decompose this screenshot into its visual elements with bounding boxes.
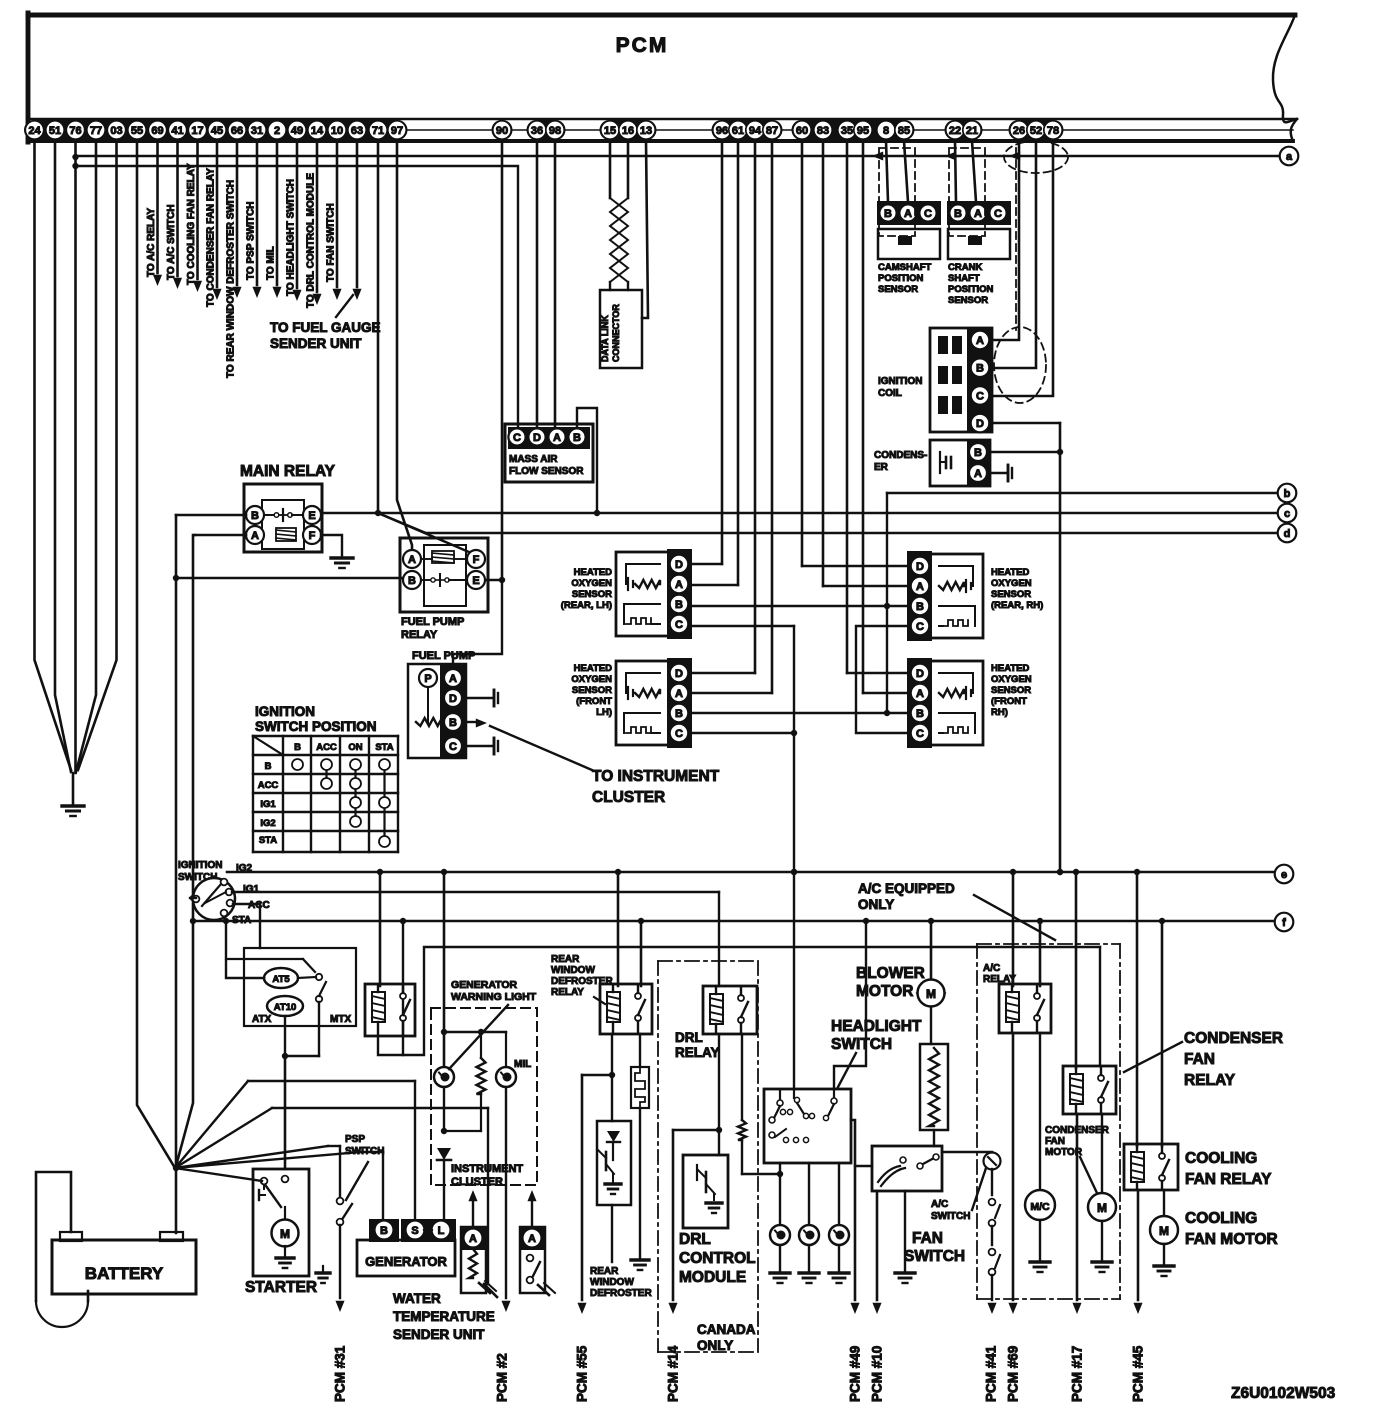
svg-text:DATA LINK: DATA LINK [600, 315, 610, 362]
svg-text:PCM #10: PCM #10 [870, 1346, 885, 1402]
svg-text:HEADLIGHT: HEADLIGHT [831, 1018, 922, 1035]
svg-text:PSP: PSP [345, 1134, 365, 1145]
svg-text:A/C: A/C [931, 1199, 948, 1210]
svg-text:77: 77 [90, 125, 102, 137]
svg-text:ONLY: ONLY [697, 1338, 733, 1353]
svg-text:POSITION: POSITION [878, 273, 924, 284]
svg-text:CONDENSER: CONDENSER [1184, 1030, 1283, 1047]
svg-text:IGNITION: IGNITION [178, 860, 222, 871]
svg-text:STARTER: STARTER [245, 1279, 317, 1296]
svg-text:FAN: FAN [912, 1230, 943, 1247]
svg-text:(FRONT: (FRONT [991, 696, 1027, 707]
svg-text:B: B [976, 363, 984, 375]
svg-text:CONNECTOR: CONNECTOR [611, 304, 621, 362]
svg-text:FAN MOTOR: FAN MOTOR [1185, 1231, 1278, 1248]
svg-text:A: A [528, 1233, 536, 1245]
svg-text:TO A/C SWITCH: TO A/C SWITCH [166, 204, 177, 280]
svg-text:IG2: IG2 [260, 818, 275, 829]
svg-text:ATX: ATX [252, 1014, 272, 1025]
svg-text:RH): RH) [991, 707, 1008, 718]
svg-text:B: B [675, 708, 683, 720]
svg-text:A: A [904, 208, 912, 220]
svg-text:Z6U0102W503: Z6U0102W503 [1231, 1385, 1336, 1402]
svg-text:HEATED: HEATED [574, 663, 612, 674]
svg-text:GENERATOR: GENERATOR [451, 979, 518, 991]
svg-text:16: 16 [622, 125, 634, 137]
svg-text:90: 90 [496, 125, 508, 137]
svg-text:b: b [1284, 488, 1291, 500]
svg-text:(REAR, RH): (REAR, RH) [991, 600, 1043, 611]
svg-text:M: M [280, 1227, 290, 1241]
svg-text:B: B [916, 708, 924, 720]
svg-text:SENSOR: SENSOR [948, 295, 988, 306]
svg-text:MASS AIR: MASS AIR [509, 454, 558, 465]
svg-text:SHAFT: SHAFT [948, 273, 980, 284]
svg-text:A: A [553, 432, 561, 444]
svg-text:ON: ON [348, 742, 362, 753]
svg-text:98: 98 [549, 125, 561, 137]
svg-text:IGNITION: IGNITION [255, 704, 315, 719]
svg-text:REAR: REAR [551, 954, 580, 965]
svg-text:TO A/C RELAY: TO A/C RELAY [146, 208, 157, 277]
svg-text:SENSOR: SENSOR [991, 589, 1031, 600]
svg-text:S: S [411, 1225, 418, 1237]
svg-text:L: L [438, 1225, 445, 1237]
svg-text:PCM #49: PCM #49 [848, 1346, 863, 1402]
svg-text:c: c [1284, 508, 1290, 520]
svg-text:69: 69 [151, 125, 163, 137]
svg-text:FUEL PUMP: FUEL PUMP [401, 616, 464, 628]
svg-text:TO FUEL GAUGE: TO FUEL GAUGE [270, 320, 381, 335]
svg-text:26: 26 [1013, 125, 1025, 137]
svg-text:B: B [974, 447, 982, 459]
svg-text:M: M [1159, 1224, 1169, 1238]
svg-text:WATER: WATER [393, 1291, 441, 1306]
svg-text:52: 52 [1030, 125, 1042, 137]
svg-text:35: 35 [841, 125, 853, 137]
svg-text:D: D [976, 418, 984, 430]
svg-text:63: 63 [351, 125, 363, 137]
svg-text:COOLING: COOLING [1185, 1210, 1257, 1227]
svg-text:D: D [533, 432, 541, 444]
svg-text:95: 95 [857, 125, 869, 137]
svg-text:d: d [1284, 528, 1291, 540]
svg-text:SENDER UNIT: SENDER UNIT [270, 336, 362, 351]
svg-text:SWITCH: SWITCH [345, 1146, 384, 1157]
svg-text:TO COOLING FAN RELAY: TO COOLING FAN RELAY [186, 163, 197, 285]
svg-text:D: D [449, 693, 457, 705]
svg-text:F: F [473, 554, 480, 566]
svg-text:B: B [916, 601, 924, 613]
svg-text:14: 14 [311, 125, 324, 137]
svg-text:94: 94 [749, 125, 762, 137]
svg-text:SWITCH: SWITCH [904, 1248, 965, 1265]
svg-text:STA: STA [375, 742, 393, 753]
svg-text:PCM #69: PCM #69 [1006, 1346, 1021, 1402]
svg-text:SENSOR: SENSOR [572, 685, 612, 696]
svg-text:(FRONT: (FRONT [576, 696, 612, 707]
svg-text:97: 97 [391, 125, 403, 137]
svg-text:SWITCH: SWITCH [931, 1211, 970, 1222]
svg-text:A: A [974, 468, 982, 480]
svg-text:8: 8 [883, 125, 889, 137]
svg-text:A: A [916, 688, 924, 700]
svg-text:ONLY: ONLY [858, 897, 894, 912]
svg-text:B: B [265, 761, 272, 772]
svg-text:22: 22 [949, 125, 961, 137]
svg-text:LH): LH) [596, 707, 612, 718]
svg-text:CANADA: CANADA [697, 1322, 756, 1337]
svg-text:C: C [924, 208, 932, 220]
svg-text:41: 41 [171, 125, 183, 137]
svg-text:49: 49 [291, 125, 303, 137]
svg-text:HEATED: HEATED [991, 663, 1029, 674]
svg-text:POSITION: POSITION [948, 284, 994, 295]
svg-text:SWITCH: SWITCH [831, 1036, 892, 1053]
svg-text:FAN: FAN [1184, 1051, 1215, 1068]
svg-text:E: E [472, 575, 479, 587]
svg-text:87: 87 [766, 125, 778, 137]
svg-text:21: 21 [966, 125, 978, 137]
svg-text:ACC: ACC [316, 742, 337, 753]
svg-text:CONTROL: CONTROL [679, 1250, 756, 1267]
svg-text:F: F [309, 530, 316, 542]
svg-text:MTX: MTX [330, 1014, 351, 1025]
svg-text:BLOWER: BLOWER [856, 965, 925, 982]
svg-text:CRANK: CRANK [948, 262, 982, 273]
svg-text:96: 96 [716, 125, 728, 137]
svg-text:OXYGEN: OXYGEN [991, 674, 1032, 685]
svg-text:HEATED: HEATED [991, 567, 1029, 578]
svg-text:TO REAR WINDOW DEFROSTER SWITC: TO REAR WINDOW DEFROSTER SWITCH [226, 180, 237, 378]
svg-text:A: A [675, 688, 683, 700]
svg-text:45: 45 [211, 125, 223, 137]
svg-text:SENSOR: SENSOR [572, 589, 612, 600]
svg-text:SENDER UNIT: SENDER UNIT [393, 1327, 485, 1342]
svg-text:D: D [675, 668, 683, 680]
svg-text:RELAY: RELAY [1184, 1072, 1236, 1089]
svg-text:STA: STA [259, 835, 277, 846]
svg-text:66: 66 [231, 125, 243, 137]
svg-text:TO MIL: TO MIL [266, 246, 277, 280]
svg-text:B: B [573, 432, 581, 444]
svg-text:WARNING LIGHT: WARNING LIGHT [451, 991, 537, 1003]
svg-text:BATTERY: BATTERY [85, 1264, 164, 1283]
svg-text:MODULE: MODULE [679, 1269, 746, 1286]
svg-text:C: C [916, 621, 924, 633]
svg-text:TEMPERATURE: TEMPERATURE [393, 1309, 495, 1324]
svg-text:TO CONDENSER FAN RELAY: TO CONDENSER FAN RELAY [206, 168, 217, 307]
svg-text:MAIN RELAY: MAIN RELAY [240, 463, 336, 480]
svg-text:A/C: A/C [983, 963, 1000, 974]
svg-text:51: 51 [49, 125, 61, 137]
svg-text:CLUSTER: CLUSTER [451, 1176, 503, 1188]
svg-text:a: a [1286, 151, 1293, 163]
svg-text:36: 36 [531, 125, 543, 137]
svg-text:HEATED: HEATED [574, 567, 612, 578]
svg-text:17: 17 [191, 125, 203, 137]
svg-text:ACC: ACC [258, 780, 279, 791]
svg-text:85: 85 [898, 125, 910, 137]
svg-text:83: 83 [817, 125, 829, 137]
svg-text:GENERATOR: GENERATOR [365, 1254, 447, 1269]
svg-text:SENSOR: SENSOR [991, 685, 1031, 696]
svg-text:C: C [513, 432, 521, 444]
svg-text:B: B [675, 599, 683, 611]
svg-text:A: A [916, 581, 924, 593]
svg-text:IG1: IG1 [243, 884, 260, 895]
svg-text:(REAR, LH): (REAR, LH) [561, 600, 612, 611]
svg-text:A/C EQUIPPED: A/C EQUIPPED [858, 881, 955, 896]
svg-text:C: C [976, 390, 984, 402]
svg-text:PCM #31: PCM #31 [333, 1345, 348, 1402]
svg-text:C: C [916, 728, 924, 740]
svg-text:PCM: PCM [616, 34, 669, 57]
svg-text:IG1: IG1 [260, 799, 276, 810]
svg-text:COOLING: COOLING [1185, 1150, 1257, 1167]
svg-text:31: 31 [251, 125, 263, 137]
svg-text:TO INSTRUMENT: TO INSTRUMENT [592, 768, 720, 785]
svg-text:P: P [424, 673, 431, 685]
svg-text:MOTOR: MOTOR [856, 983, 913, 1000]
svg-text:OXYGEN: OXYGEN [571, 674, 612, 685]
svg-text:SWITCH POSITION: SWITCH POSITION [255, 719, 377, 734]
svg-text:71: 71 [372, 125, 384, 137]
svg-text:PCM #2: PCM #2 [495, 1353, 510, 1402]
svg-text:FAN: FAN [1045, 1136, 1065, 1147]
svg-text:M: M [926, 987, 936, 1001]
svg-text:76: 76 [69, 125, 81, 137]
svg-text:D: D [916, 561, 924, 573]
svg-text:AT10: AT10 [274, 1002, 297, 1013]
svg-text:PCM #45: PCM #45 [1131, 1345, 1146, 1402]
svg-text:78: 78 [1047, 125, 1059, 137]
svg-text:B: B [954, 208, 962, 220]
svg-text:B: B [294, 742, 301, 753]
svg-text:24: 24 [28, 125, 41, 137]
svg-text:B: B [380, 1225, 388, 1237]
svg-text:M/C: M/C [1030, 1201, 1050, 1213]
svg-text:OXYGEN: OXYGEN [991, 578, 1032, 589]
svg-text:PCM #55: PCM #55 [575, 1345, 590, 1402]
svg-text:INSTRUMENT: INSTRUMENT [451, 1163, 523, 1175]
svg-text:TO DRL CONTROL MODULE: TO DRL CONTROL MODULE [306, 173, 317, 308]
svg-text:IGNITION: IGNITION [878, 376, 922, 387]
svg-text:C: C [675, 619, 683, 631]
svg-text:RELAY: RELAY [675, 1045, 720, 1060]
svg-text:B: B [884, 208, 892, 220]
svg-text:FAN RELAY: FAN RELAY [1185, 1171, 1272, 1188]
svg-text:CONDENS-: CONDENS- [874, 450, 927, 461]
svg-text:C: C [994, 208, 1002, 220]
svg-text:C: C [449, 741, 457, 753]
svg-text:SENSOR: SENSOR [878, 284, 918, 295]
svg-text:PCM #14: PCM #14 [666, 1345, 681, 1402]
svg-text:CLUSTER: CLUSTER [592, 789, 665, 806]
svg-text:13: 13 [640, 125, 652, 137]
svg-text:DEFROSTER: DEFROSTER [590, 1288, 652, 1299]
svg-text:WINDOW: WINDOW [590, 1277, 634, 1288]
svg-text:2: 2 [274, 125, 280, 137]
svg-text:A: A [408, 554, 416, 566]
svg-text:55: 55 [131, 125, 143, 137]
svg-text:10: 10 [331, 125, 343, 137]
svg-text:A: A [675, 579, 683, 591]
svg-text:15: 15 [604, 125, 616, 137]
svg-text:B: B [449, 717, 457, 729]
svg-text:WINDOW: WINDOW [551, 965, 595, 976]
svg-text:ER: ER [874, 462, 889, 473]
svg-text:B: B [251, 510, 259, 522]
svg-text:e: e [1281, 869, 1287, 881]
svg-text:TO FAN SWITCH: TO FAN SWITCH [326, 203, 337, 282]
svg-text:E: E [308, 510, 315, 522]
svg-text:CAMSHAFT: CAMSHAFT [878, 262, 931, 273]
svg-text:COIL: COIL [878, 388, 902, 399]
svg-text:FUEL PUMP: FUEL PUMP [412, 650, 475, 662]
svg-text:DRL: DRL [675, 1030, 703, 1045]
svg-text:DRL: DRL [679, 1231, 711, 1248]
svg-text:PCM #41: PCM #41 [984, 1345, 999, 1402]
svg-text:RELAY: RELAY [551, 987, 584, 998]
svg-text:MIL: MIL [514, 1059, 531, 1070]
svg-text:A: A [251, 530, 259, 542]
svg-text:f: f [1282, 917, 1286, 929]
svg-text:TO PSP SWITCH: TO PSP SWITCH [246, 201, 257, 280]
svg-text:M: M [1097, 1201, 1107, 1215]
svg-text:C: C [675, 728, 683, 740]
svg-text:A: A [974, 208, 982, 220]
svg-text:REAR: REAR [590, 1266, 619, 1277]
svg-text:61: 61 [732, 125, 744, 137]
svg-text:A: A [449, 673, 457, 685]
svg-text:A: A [976, 335, 984, 347]
svg-text:OXYGEN: OXYGEN [571, 578, 612, 589]
svg-text:60: 60 [796, 125, 808, 137]
svg-text:B: B [408, 575, 416, 587]
svg-text:FLOW SENSOR: FLOW SENSOR [509, 466, 584, 477]
svg-text:D: D [675, 559, 683, 571]
svg-text:03: 03 [110, 125, 122, 137]
svg-text:A: A [469, 1233, 477, 1245]
svg-text:TO HEADLIGHT SWITCH: TO HEADLIGHT SWITCH [286, 179, 297, 296]
svg-text:D: D [916, 668, 924, 680]
svg-text:PCM #17: PCM #17 [1070, 1346, 1085, 1402]
svg-text:AT5: AT5 [272, 974, 290, 985]
svg-text:RELAY: RELAY [401, 629, 438, 641]
